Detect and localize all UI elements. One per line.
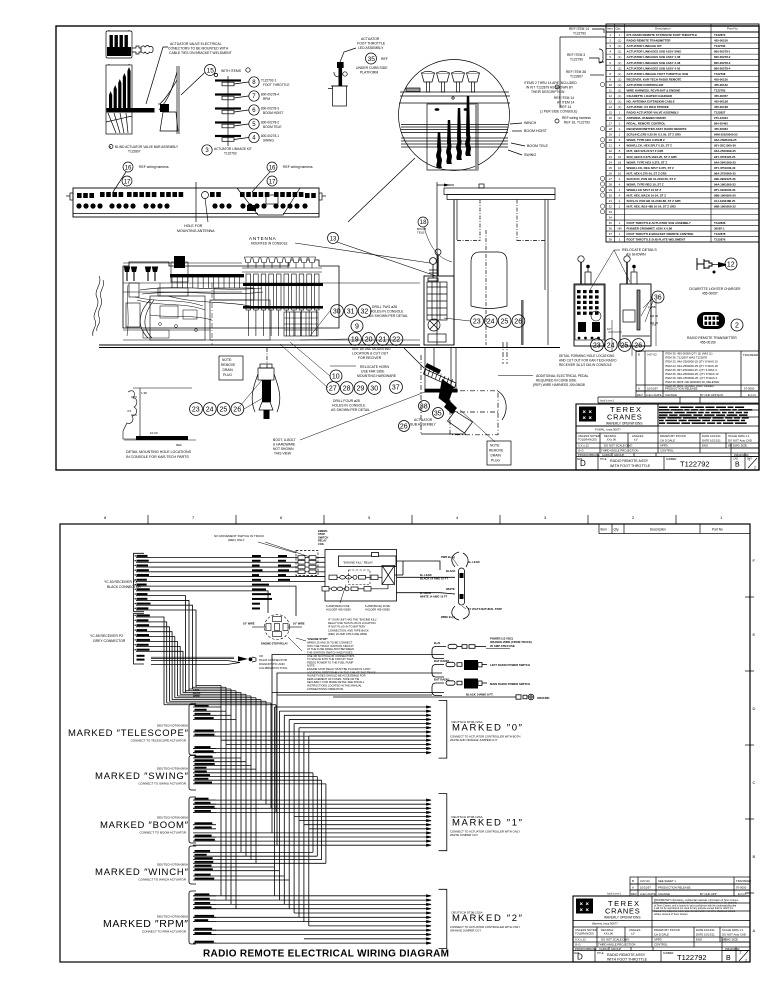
detail mounting hole locations xyxy=(123,388,196,447)
callout circles 23,24,25,26 xyxy=(591,339,604,352)
console front view 1 xyxy=(574,256,605,346)
caption detail mounting xyxy=(126,450,192,459)
svg-text:92E-9902425-30: 92E-9902425-30 xyxy=(714,177,736,181)
note boot u-bolt xyxy=(273,438,296,456)
svg-text:IN KIT T122879 AS SHOWN BY: IN KIT T122879 AS SHOWN BY xyxy=(526,86,574,90)
svg-text:18: 18 xyxy=(420,220,427,226)
svg-text:10.00: 10.00 xyxy=(150,431,158,435)
note: actuator valve electrical connectors xyxy=(168,42,232,55)
svg-text:BLIND ACTUATOR VALVE BAR ASSEM: BLIND ACTUATOR VALVE BAR ASSEMBLY xyxy=(115,145,179,149)
svg-text:PRODUCTION RELEASE: PRODUCTION RELEASE xyxy=(665,387,698,391)
svg-text:35: 35 xyxy=(434,411,442,418)
svg-text:30: 30 xyxy=(333,309,341,316)
svg-text:TEREX: TEREX xyxy=(707,312,716,316)
svg-text:GROUND: GROUND xyxy=(537,696,549,700)
callout circles 38 xyxy=(419,401,430,412)
svg-text:97-0000: 97-0000 xyxy=(744,387,755,391)
leader wire xyxy=(146,47,168,104)
svg-text:TITLE: TITLE xyxy=(597,952,604,955)
svg-text:CIGARETTE LIGHTER CHARGER: CIGARETTE LIGHTER CHARGER xyxy=(627,94,674,98)
svg-text:SWING: SWING xyxy=(524,153,536,157)
svg-text:A: A xyxy=(632,886,634,890)
bracket weldment xyxy=(158,66,179,134)
svg-text:BLACK 14 AWG 10 FT: BLACK 14 AWG 10 FT xyxy=(420,576,448,580)
svg-text:864-20462: 864-20462 xyxy=(714,122,728,126)
svg-text:25: 25 xyxy=(220,407,228,414)
svg-text:MARKED ″WINCH″: MARKED ″WINCH″ xyxy=(95,867,189,878)
svg-text:2964101044: 2964101044 xyxy=(734,453,749,457)
svg-text:91J-1902488-25: 91J-1902488-25 xyxy=(714,199,736,203)
svg-text:REF wiring harness: REF wiring harness xyxy=(139,165,169,169)
callout 15 xyxy=(181,65,250,96)
label: blind actuator valve bar assembly T122807 xyxy=(109,145,179,154)
svg-text:WSHR,LCK SPLT 10 ST Z: WSHR,LCK SPLT 10 ST Z xyxy=(627,188,662,192)
svg-text:REF: REF xyxy=(176,443,182,447)
svg-text:⊘ ⊙: ⊘ ⊙ xyxy=(578,449,584,453)
svg-text:DRILL TWO ø28: DRILL TWO ø28 xyxy=(372,305,397,309)
callout circles 19,20,21,22 xyxy=(349,333,362,346)
svg-text:ACTUATOR LINKAGES SUB ASSY 4-0: ACTUATOR LINKAGES SUB ASSY 4-08 xyxy=(627,55,681,59)
svg-text:33: 33 xyxy=(609,210,613,214)
svg-text:ENG: ENG xyxy=(702,444,708,448)
svg-text:800-00278-1: 800-00278-1 xyxy=(714,50,731,54)
connector group MARKED WINCH xyxy=(189,846,216,884)
svg-text:HOLES IN CONSOLE: HOLES IN CONSOLE xyxy=(332,404,366,408)
lever labels xyxy=(524,121,549,157)
svg-text:WHITE AND ORANGE JUMPER CUT.: WHITE AND ORANGE JUMPER CUT. xyxy=(450,738,498,742)
svg-text:DEUTSCH DT06-08SA: DEUTSCH DT06-08SA xyxy=(157,816,188,820)
svg-text:DEUTSCH DT06-08SA: DEUTSCH DT06-08SA xyxy=(157,863,188,867)
svg-text:SEE SHEET 1: SEE SHEET 1 xyxy=(658,879,676,883)
svg-text:WHITE 14 AWG 10 FT: WHITE 14 AWG 10 FT xyxy=(420,594,448,598)
svg-text:CONNECT TO SWING ACTUATOR: CONNECT TO SWING ACTUATOR xyxy=(138,782,186,786)
svg-text:TRANSFER: TRANSFER xyxy=(736,879,751,883)
svg-text:30587-1: 30587-1 xyxy=(714,227,725,231)
svg-text:HOLE FOR: HOLE FOR xyxy=(184,224,203,228)
svg-text:T122874: T122874 xyxy=(714,33,726,37)
svg-text:T122828: T122828 xyxy=(714,221,726,225)
svg-text:31: 31 xyxy=(609,199,613,203)
svg-text:GR 36: GR 36 xyxy=(650,314,659,318)
svg-text:16: 16 xyxy=(125,165,132,171)
svg-text:17: 17 xyxy=(609,122,613,126)
svg-text:96B-1900000-20: 96B-1900000-20 xyxy=(714,193,736,197)
svg-text:A.Ecn DATE: A.Ecn DATE xyxy=(640,892,656,896)
svg-text:18: 18 xyxy=(609,127,613,131)
svg-text:97-0000: 97-0000 xyxy=(736,886,747,890)
truck cab frame xyxy=(437,182,555,345)
electrical pedal assembly xyxy=(404,342,507,435)
svg-text:AT ITEM 14: AT ITEM 14 xyxy=(557,101,574,105)
svg-text:Item: Item xyxy=(607,27,613,31)
svg-text:REF wiring harness: REF wiring harness xyxy=(562,116,591,120)
svg-text:RELOCATE HORN: RELOCATE HORN xyxy=(360,365,390,369)
svg-text:MARKED ″1″: MARKED ″1″ xyxy=(452,818,523,829)
engine stop note xyxy=(307,637,376,691)
connector pins (P3 to relay) xyxy=(296,551,318,576)
svg-text:CHANGE: CHANGE xyxy=(665,393,677,397)
svg-text:94A-25M1009-25: 94A-25M1009-25 xyxy=(714,138,737,142)
svg-text:21: 21 xyxy=(379,337,387,344)
svg-text:RADIO REMOTE TRANSMITTER: RADIO REMOTE TRANSMITTER xyxy=(627,39,672,43)
svg-text:NUMBER: NUMBER xyxy=(663,952,674,955)
ref item callout texts xyxy=(562,27,591,125)
svg-text:BY CHK APP ECN: BY CHK APP ECN xyxy=(700,393,723,397)
svg-text:BLACK: BLACK xyxy=(446,569,455,573)
svg-text:CRANES: CRANES xyxy=(605,907,640,916)
leaders xyxy=(240,311,348,409)
svg-text:21: 21 xyxy=(609,144,613,148)
parts list table xyxy=(606,24,759,242)
svg-text:DETAIL MOUNTING HOLE LOCATI: DETAIL MOUNTING HOLE LOCATIONS xyxy=(126,450,192,454)
svg-text:ACTUATOR LINKAGES SUB ASSY SWG: ACTUATOR LINKAGES SUB ASSY SWG xyxy=(627,50,683,54)
svg-text:12: 12 xyxy=(727,262,735,269)
svg-text:31: 31 xyxy=(347,309,355,316)
svg-text:455-00057: 455-00057 xyxy=(714,94,728,98)
callout 4 xyxy=(249,132,259,142)
svg-text:DO NOT Auto CAD: DO NOT Auto CAD xyxy=(722,933,746,937)
svg-text:37: 37 xyxy=(392,385,400,392)
svg-text:DEUTSCH DT06-08SA: DEUTSCH DT06-08SA xyxy=(157,767,188,771)
svg-text:D: D xyxy=(753,706,756,711)
svg-text:CONNECT TO WINCH ACTUATOR: CONNECT TO WINCH ACTUATOR xyxy=(138,878,186,882)
svg-text:X.X ±.12: X.X ±.12 xyxy=(578,444,589,448)
svg-text:RPM: RPM xyxy=(263,97,270,101)
svg-text:A.Ecn DATE: A.Ecn DATE xyxy=(646,393,662,397)
svg-text:DETAIL FORMING HOLE LOCATIONS: DETAIL FORMING HOLE LOCATIONS xyxy=(559,354,614,358)
svg-text:DATE 10/13/11: DATE 10/13/11 xyxy=(702,439,721,443)
YC-53 text xyxy=(90,580,141,643)
svg-text:ADDITIONAL ELECTRICAL PEDAL: ADDITIONAL ELECTRICAL PEDAL xyxy=(536,374,589,378)
callout 18 xyxy=(418,217,428,227)
svg-text:27: 27 xyxy=(329,386,337,393)
svg-text:"ENGINE STOP": "ENGINE STOP" xyxy=(307,637,329,641)
svg-text:(REF) ONLY: (REF) ONLY xyxy=(228,538,245,542)
svg-text:USE FAR SIDE: USE FAR SIDE xyxy=(361,370,385,374)
engine kill relay box xyxy=(325,550,397,602)
svg-text:Qty.: Qty. xyxy=(614,528,620,532)
svg-text:HOLDER 455-00058: HOLDER 455-00058 xyxy=(365,607,390,611)
leader to note xyxy=(460,410,495,442)
P3 wires to pins/relay xyxy=(151,558,325,693)
svg-text:TELE: TELE xyxy=(417,231,425,235)
svg-text:DRAIN: DRAIN xyxy=(491,454,502,458)
note additional electrical pedal xyxy=(533,374,589,387)
svg-text:CONNECT TO RPM ACTUATOR: CONNECT TO RPM ACTUATOR xyxy=(142,930,187,934)
svg-text:RADIO REMOTE TRANSMITTER: RADIO REMOTE TRANSMITTER xyxy=(687,336,737,340)
table header text xyxy=(607,27,738,242)
svg-text:38: 38 xyxy=(420,404,428,411)
svg-text:(REF) WIRE HARNESS J09-09638: (REF) WIRE HARNESS J09-09638 xyxy=(533,383,585,387)
svg-text:SCR, HHCS 0.375-16X1.25, ST Z: SCR, HHCS 0.375-16X1.25, ST Z GR5 xyxy=(627,155,678,159)
svg-text:800-00278-4: 800-00278-4 xyxy=(714,66,731,70)
svg-text:SIZE: SIZE xyxy=(577,458,583,461)
svg-text:16: 16 xyxy=(269,165,276,171)
svg-text:15: 15 xyxy=(609,111,613,115)
svg-text:29: 29 xyxy=(609,188,613,192)
svg-text:B: B xyxy=(735,462,740,469)
vertical wire bus (receiver to actuator groups) xyxy=(221,686,326,926)
callout circles 30,31,32 xyxy=(331,305,344,318)
svg-text:WSHR, TYPE-REG 10, ST Z: WSHR, TYPE-REG 10, ST Z xyxy=(627,182,664,186)
svg-text:Item: Item xyxy=(601,528,608,532)
actuator sub assembly below console xyxy=(252,348,280,419)
svg-text:Inch [ mm ]: Inch [ mm ] xyxy=(600,399,614,403)
svg-text:RECEIVER/XMITTER ASSY RADIO RE: RECEIVER/XMITTER ASSY RADIO REMOTE xyxy=(627,127,687,131)
svg-text:SCALE DWG 1:1: SCALE DWG 1:1 xyxy=(722,928,744,932)
svg-text:35: 35 xyxy=(609,221,613,225)
svg-text:455-00150: 455-00150 xyxy=(700,341,716,345)
palm connector note xyxy=(259,654,288,670)
svg-text:ANTENNA, RUBBER ON/OFF: ANTENNA, RUBBER ON/OFF xyxy=(627,116,667,120)
svg-text:25: 25 xyxy=(501,319,509,326)
fuse row 2 xyxy=(322,585,388,592)
svg-text:REF ITEM 3: REF ITEM 3 xyxy=(567,53,585,57)
svg-text:TRANSFER: TRANSFER xyxy=(743,353,758,357)
svg-text:UNDER CURB SIDE: UNDER CURB SIDE xyxy=(356,66,388,70)
svg-text:"ENGINE KILL" RELAY: "ENGINE KILL" RELAY xyxy=(343,561,373,565)
svg-text:IF NOT PLUG IN TO BATTERY: IF NOT PLUG IN TO BATTERY xyxy=(328,625,366,629)
svg-text:FOOT THROTTLE: FOOT THROTTLE xyxy=(263,83,289,87)
svg-text:BLACK 14AWG 8 FT.: BLACK 14AWG 8 FT. xyxy=(466,693,494,697)
svg-text:95Y-25C1000-30: 95Y-25C1000-30 xyxy=(714,144,736,148)
svg-text:T122793: T122793 xyxy=(224,152,237,156)
svg-text:22: 22 xyxy=(392,337,400,344)
svg-text:32: 32 xyxy=(609,205,613,209)
svg-text:C: C xyxy=(753,780,756,785)
svg-text:CRANES: CRANES xyxy=(607,413,642,422)
callout 5 xyxy=(249,119,259,129)
svg-text:20 AMP ATM FUSE: 20 AMP ATM FUSE xyxy=(490,644,515,648)
svg-text:REF 14: REF 14 xyxy=(560,105,571,109)
svg-text:T122807: T122807 xyxy=(128,150,141,154)
svg-text:RUBBER GROMMET, A250 X 0.88: RUBBER GROMMET, A250 X 0.88 xyxy=(627,227,673,231)
svg-text:PRODUCTION RELEASE: PRODUCTION RELEASE xyxy=(658,886,691,890)
svg-text:CONNECTIONS OPERATION.: CONNECTIONS OPERATION. xyxy=(307,687,344,691)
svg-text:NOTE:: NOTE: xyxy=(490,444,500,448)
svg-text:9: 9 xyxy=(355,324,359,331)
svg-text:37: 37 xyxy=(609,232,613,236)
svg-text:B: B xyxy=(638,353,640,357)
svg-text:NUT, HEX, MACH 10-24, ST Z: NUT, HEX, MACH 10-24, ST Z xyxy=(627,193,667,197)
svg-text:written consent of Terex Crane: written consent of Terex Cranes. xyxy=(654,913,689,916)
svg-text:E: E xyxy=(753,632,756,637)
svg-text:CH D DALE: CH D DALE xyxy=(654,933,669,937)
svg-text:ACTUATOR LINKAGE FOOT THROTTLE: ACTUATOR LINKAGE FOOT THROTTLE SUB xyxy=(627,72,689,76)
svg-text:455-00150: 455-00150 xyxy=(714,39,728,43)
svg-text:IF YOUR UNIT HAS THE "ENGINE K: IF YOUR UNIT HAS THE "ENGINE KILL" xyxy=(328,618,377,622)
svg-text:MARKED ″SWING″: MARKED ″SWING″ xyxy=(95,771,189,782)
svg-text:REF 16, T122792: REF 16, T122792 xyxy=(564,121,590,125)
svg-text:⊘ ⊙: ⊘ ⊙ xyxy=(575,943,581,947)
svg-text:B: B xyxy=(632,879,634,883)
svg-text:Waverly, Iowa 50677: Waverly, Iowa 50677 xyxy=(592,922,618,926)
svg-text:X.X ±.12: X.X ±.12 xyxy=(575,938,586,942)
svg-text:B+ LEAD: B+ LEAD xyxy=(468,560,480,564)
svg-text:Qty.: Qty. xyxy=(616,27,622,31)
svg-text:IN CONSOLE FOR KAR-TECH PA: IN CONSOLE FOR KAR-TECH PARTS xyxy=(126,455,189,459)
blind actuator valve bar assembly xyxy=(106,64,155,134)
svg-text:NUT, HEX, W10-488 10-24, ST Z: NUT, HEX, W10-488 10-24, ST Z GR2 xyxy=(627,205,677,209)
svg-text:(1): (1) xyxy=(618,77,622,81)
svg-text:MOUNTING HARDWARE: MOUNTING HARDWARE xyxy=(357,374,397,378)
svg-text:REQUIRED IN CURB SIDE: REQUIRED IN CURB SIDE xyxy=(536,379,577,383)
svg-text:WIRE B+(-): WIRE B+(-) xyxy=(441,615,455,619)
svg-text:94M-25020009-25: 94M-25020009-25 xyxy=(714,133,738,137)
svg-text:2: 2 xyxy=(740,951,742,955)
wires relay to battery xyxy=(395,561,456,594)
svg-text:ACTUATOR VALVE ELECTRICAL: ACTUATOR VALVE ELECTRICAL xyxy=(170,42,222,46)
svg-text:FOR RECIVER: FOR RECIVER xyxy=(358,356,382,360)
harness connectors xyxy=(132,46,153,55)
svg-text:93Y-3756125-25: 93Y-3756125-25 xyxy=(714,155,736,159)
svg-text:24: 24 xyxy=(487,319,495,326)
svg-text:10: 10 xyxy=(618,166,622,170)
svg-text:CAPAC: CAPAC xyxy=(599,947,608,951)
svg-text:10/31/97: 10/31/97 xyxy=(640,886,651,890)
connector group MARKED 1 (controller) xyxy=(439,794,447,851)
svg-text:DRAWN BY P.FOXD: DRAWN BY P.FOXD xyxy=(654,928,680,932)
svg-text:ACTUATOR LINKAGE KIT: ACTUATOR LINKAGE KIT xyxy=(627,44,662,48)
svg-text:(1): (1) xyxy=(618,44,622,48)
console top view panel xyxy=(66,182,326,222)
svg-text:BOOM HOIST: BOOM HOIST xyxy=(524,129,548,133)
svg-text:AS SHOWN: AS SHOWN xyxy=(626,253,646,257)
svg-text:24: 24 xyxy=(206,407,214,414)
svg-text:FOWAL, Iowa 50677: FOWAL, Iowa 50677 xyxy=(595,428,621,432)
svg-text:MARKED ″RPM″: MARKED ″RPM″ xyxy=(103,918,188,930)
svg-text:13: 13 xyxy=(330,236,337,242)
svg-text:WSHR,LCK, REG SPLT 0.375, ST Z: WSHR,LCK, REG SPLT 0.375, ST Z xyxy=(627,166,675,170)
svg-text:MOUNTED IN CONSOLE: MOUNTED IN CONSOLE xyxy=(251,242,288,246)
zone numbers top xyxy=(104,515,723,520)
svg-text:LED ASSEMBLY: LED ASSEMBLY xyxy=(358,46,384,50)
svg-text:REMOVE: REMOVE xyxy=(221,363,236,367)
svg-text:MARKED ″BOOM″: MARKED ″BOOM″ xyxy=(100,820,189,831)
svg-text:BAT RADIO: BAT RADIO xyxy=(434,677,450,681)
svg-text:17: 17 xyxy=(124,179,131,185)
svg-text:MARKED ″2″: MARKED ″2″ xyxy=(452,913,523,924)
horizontal wires to controller connectors xyxy=(193,707,427,943)
svg-text:AS SHOWN PER DETAIL: AS SHOWN PER DETAIL xyxy=(331,408,370,412)
svg-text:ACTUATOR: ACTUATOR xyxy=(414,418,433,422)
svg-text:APPD: APPD xyxy=(660,444,668,448)
svg-text:(1): (1) xyxy=(618,61,622,65)
svg-text:DO NOT Auto CAD: DO NOT Auto CAD xyxy=(728,439,752,443)
radio remote transmitter xyxy=(697,312,725,329)
ref item bracket wires xyxy=(555,29,606,123)
svg-text:WIRE HARNESS, RCVR-BAT & ENGIN: WIRE HARNESS, RCVR-BAT & ENGINE xyxy=(627,88,681,92)
svg-text:DATE 10/13/11: DATE 10/13/11 xyxy=(696,933,715,937)
svg-text:±1°: ±1° xyxy=(631,932,635,936)
svg-text:WSHR, TYPE HEX 0.25CM Z: WSHR, TYPE HEX 0.25CM Z xyxy=(627,138,665,142)
svg-text:270-12034: 270-12034 xyxy=(714,116,728,120)
valve bank sub-assembly (top view) xyxy=(106,30,132,58)
callout circles 2 xyxy=(731,319,743,331)
svg-text:B: B xyxy=(726,955,731,962)
callout 35 xyxy=(366,53,377,64)
svg-text:T122790: T122790 xyxy=(570,58,583,62)
svg-text:19: 19 xyxy=(351,337,359,344)
svg-text:NUT, HEX 025-20 ST Z GR5: NUT, HEX 025-20 ST Z GR5 xyxy=(627,149,664,153)
svg-text:CALIBRATION TOOL: CALIBRATION TOOL xyxy=(259,666,288,670)
svg-text:& HARDWARE: & HARDWARE xyxy=(273,443,296,447)
svg-text:YC-55 RECEIVER P2: YC-55 RECEIVER P2 xyxy=(90,634,123,638)
svg-text:MOUNTING ANTENNA: MOUNTING ANTENNA xyxy=(177,229,215,233)
svg-text:Description: Description xyxy=(655,27,671,31)
detail circle: control levers xyxy=(399,60,511,171)
svg-text:10: 10 xyxy=(332,374,340,381)
svg-text:WHITE JUMPER CUT.: WHITE JUMPER CUT. xyxy=(450,833,479,837)
svg-text:28: 28 xyxy=(609,182,613,186)
console side view (main) xyxy=(93,256,560,348)
svg-text:10/31/97: 10/31/97 xyxy=(647,387,658,391)
svg-text:SIZE: SIZE xyxy=(574,952,580,955)
svg-text:CAPAC: CAPAC xyxy=(602,453,611,457)
svg-text:.XX±.06: .XX±.06 xyxy=(603,932,613,936)
svg-text:NOTE:: NOTE: xyxy=(222,358,232,362)
svg-text:30: 30 xyxy=(609,193,613,197)
wire color labels (blobs) xyxy=(252,555,291,609)
svg-text:19: 19 xyxy=(609,133,613,137)
console front view 2 xyxy=(620,256,651,346)
svg-text:T122807: T122807 xyxy=(570,75,583,79)
antenna in console note + callout 13 xyxy=(249,236,277,241)
svg-text:PLATFORM: PLATFORM xyxy=(360,71,378,75)
svg-text:NUT, HEX 0.375-16, ST Z GR5: NUT, HEX 0.375-16, ST Z GR5 xyxy=(627,171,667,175)
foot throttle LED assembly xyxy=(328,62,348,106)
svg-text:455-00138: 455-00138 xyxy=(714,99,728,103)
svg-text:(1): (1) xyxy=(618,88,622,92)
svg-text:(1): (1) xyxy=(618,105,622,109)
receiver console xyxy=(424,249,454,345)
svg-text:REF ITEM 38: REF ITEM 38 xyxy=(566,70,586,74)
svg-text:ORANGE JUMPER CUT.: ORANGE JUMPER CUT. xyxy=(450,929,482,933)
svg-text:RELAY USE THIS PLUG IN LOCATIO: RELAY USE THIS PLUG IN LOCATION. xyxy=(328,621,376,625)
note: items 2 thru 14 xyxy=(524,81,577,114)
palm connector cable xyxy=(151,656,256,664)
svg-text:ACTUATOR LINKAGES SUB ASSY 4-0: ACTUATOR LINKAGES SUB ASSY 4-02 xyxy=(627,66,681,70)
svg-text:TOLERANCES: TOLERANCES xyxy=(575,932,594,936)
svg-text:20: 20 xyxy=(609,138,613,142)
svg-text:GR 36: GR 36 xyxy=(650,321,659,325)
fuse holder labels xyxy=(326,604,390,611)
svg-text:REF: REF xyxy=(381,57,388,61)
antenna in console xyxy=(428,258,438,281)
svg-text:23: 23 xyxy=(473,319,481,326)
svg-text:1: 1 xyxy=(749,458,751,462)
svg-text:12 VOLTS NATURAL STOP: 12 VOLTS NATURAL STOP xyxy=(468,607,502,611)
svg-text:11: 11 xyxy=(609,88,612,92)
svg-text:18: 18 xyxy=(618,160,622,164)
svg-text:800-00278-2: 800-00278-2 xyxy=(714,55,731,59)
svg-text:RADIO ACTUATOR VALVE ASSEMBLY: RADIO ACTUATOR VALVE ASSEMBLY xyxy=(627,111,680,115)
svg-text:GREY CONNECTOR: GREY CONNECTOR xyxy=(93,639,126,643)
svg-text:ACTUATOR: ACTUATOR xyxy=(361,37,380,41)
svg-text:ACTUATOR LINKAGE KIT: ACTUATOR LINKAGE KIT xyxy=(214,147,252,151)
svg-text:3-07-02: 3-07-02 xyxy=(640,879,650,883)
svg-text:REF ITEM 14: REF ITEM 14 xyxy=(569,27,589,31)
svg-text:WSHR,LCK, HEX SPLT 0.25, ST Z: WSHR,LCK, HEX SPLT 0.25, ST Z xyxy=(627,144,673,148)
svg-text:RADIO REMOTE ASSY: RADIO REMOTE ASSY xyxy=(610,459,649,463)
svg-text:DRAWN BY P.FOXD: DRAWN BY P.FOXD xyxy=(660,434,686,438)
callout circles 12 xyxy=(725,258,737,270)
svg-text:455-00138: 455-00138 xyxy=(714,105,728,109)
power rows xyxy=(333,644,534,700)
connector group MARKED BOOM xyxy=(189,797,216,843)
svg-text:12: 12 xyxy=(609,94,613,98)
zone ticks top xyxy=(148,515,676,524)
